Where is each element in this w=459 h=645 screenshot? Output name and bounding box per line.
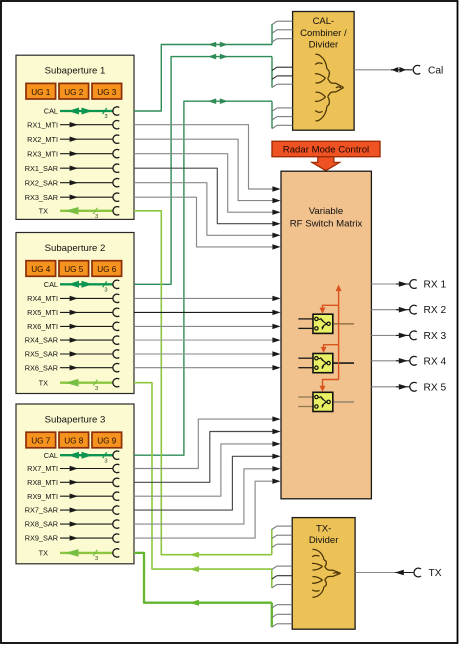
CAL-Combiner / Divider title <box>300 16 347 51</box>
svg-text:3: 3 <box>104 458 107 464</box>
svg-text:3: 3 <box>95 214 98 220</box>
switch cell S1 input stubs <box>298 319 313 329</box>
wire: subaperture1 RX2_MTI to matrix input <box>134 139 281 203</box>
unit group box UG9 <box>92 432 122 448</box>
svg-text:Variable: Variable <box>309 206 344 217</box>
svg-text:RX4_MTI: RX4_MTI <box>27 294 58 303</box>
switch cell S3 (SPDT switch) <box>313 392 333 411</box>
svg-text:RX3_MTI: RX3_MTI <box>27 149 58 158</box>
svg-text:RX6_SAR: RX6_SAR <box>25 363 58 372</box>
divider output stub group3-1 <box>272 605 292 608</box>
wire: subaperture3 RX9_MTI to matrix input <box>134 441 281 496</box>
svg-text:3: 3 <box>104 114 107 120</box>
svg-text:UG 7: UG 7 <box>31 437 51 446</box>
control arrow into switch matrix <box>312 157 340 171</box>
svg-text:RX2_SAR: RX2_SAR <box>25 178 58 187</box>
divider output stub group1-1 <box>272 526 292 529</box>
wire: subaperture1 RX1_MTI to matrix input <box>134 125 281 192</box>
unit group box UG4 <box>26 261 56 277</box>
TX port row of subaperture 3 (bus of 3) <box>39 549 120 563</box>
TX-Divider title <box>309 524 339 547</box>
switch cell S1 (SPDT switch) <box>313 314 333 333</box>
RX5_SAR port row of subaperture 2 <box>25 350 120 359</box>
svg-text:RX7_SAR: RX7_SAR <box>25 506 58 515</box>
switch cell S2 (SPDT switch) <box>313 354 333 373</box>
svg-text:Subaperture 1: Subaperture 1 <box>45 66 106 77</box>
RX3_MTI port row of subaperture 1 <box>27 149 119 158</box>
subaperture 1 box <box>16 55 134 219</box>
wire: subaperture3 RX7_MTI to matrix input <box>134 416 281 468</box>
switch cell S1 output stub <box>333 323 354 325</box>
svg-text:Divider: Divider <box>309 535 339 546</box>
divider output stub group2-1 <box>272 566 292 569</box>
RX 5 external port <box>371 382 446 393</box>
wire: subaperture3 RX8_SAR to matrix input <box>134 466 281 524</box>
wire: TX bus from divider to subaperture 1 <box>134 211 272 558</box>
control branch to switch S3 <box>320 380 339 392</box>
wire: subaperture1 RX3_MTI to matrix input <box>134 154 281 215</box>
combiner input stub group2-3 <box>272 84 293 87</box>
Variable RF Switch Matrix box <box>281 171 371 499</box>
RX1_SAR port row of subaperture 1 <box>25 164 120 173</box>
RX7_SAR port row of subaperture 3 <box>25 506 120 515</box>
svg-text:RX7_MTI: RX7_MTI <box>27 464 58 473</box>
Variable RF Switch Matrix title <box>290 206 363 230</box>
svg-text:RX8_SAR: RX8_SAR <box>25 520 58 529</box>
TX-Divider box <box>292 518 355 630</box>
RX4_SAR port row of subaperture 2 <box>25 336 120 345</box>
RX2_SAR port row of subaperture 1 <box>25 178 120 187</box>
svg-text:3: 3 <box>95 386 98 392</box>
svg-text:TX: TX <box>39 206 48 215</box>
wire: subaperture2 RX5_SAR to matrix input <box>134 351 281 356</box>
divider output stub group3-3 <box>272 624 292 627</box>
svg-text:Combiner /: Combiner / <box>300 28 347 39</box>
RX8_MTI port row of subaperture 3 <box>27 478 119 487</box>
svg-text:RX3_SAR: RX3_SAR <box>25 193 58 202</box>
divider output stub group1-3 <box>272 544 292 547</box>
svg-text:RF Switch Matrix: RF Switch Matrix <box>290 219 363 230</box>
RX 3 external port <box>371 331 446 342</box>
svg-text:UG 5: UG 5 <box>64 265 84 274</box>
svg-text:UG 9: UG 9 <box>97 437 117 446</box>
switch cell S2 output stub <box>333 362 354 364</box>
RX6_MTI port row of subaperture 2 <box>27 322 119 331</box>
CAL port row of subaperture 3 (bidirectional bus of 3) <box>44 451 120 465</box>
unit group box UG1 <box>26 83 56 99</box>
svg-text:RX9_MTI: RX9_MTI <box>27 492 58 501</box>
control line trunk (from Radar Mode Control) <box>336 285 342 380</box>
TX external port <box>355 568 442 579</box>
svg-text:RX5_MTI: RX5_MTI <box>27 308 58 317</box>
combiner input stub group3-3 <box>272 125 293 128</box>
svg-text:RX1_SAR: RX1_SAR <box>25 164 58 173</box>
subaperture 3 box <box>16 404 134 564</box>
svg-text:CAL: CAL <box>44 280 58 289</box>
CAL port row of subaperture 1 (bidirectional bus of 3) <box>44 107 120 121</box>
Cal external port <box>354 65 443 76</box>
unit group box UG3 <box>92 83 122 99</box>
RX 1 external port <box>371 280 446 291</box>
svg-text:3: 3 <box>95 556 98 562</box>
svg-text:RX4_SAR: RX4_SAR <box>25 336 58 345</box>
wire: subaperture1 RX1_SAR to matrix input <box>134 168 281 226</box>
divider output stub group3-2 <box>272 614 292 617</box>
switch cell S3 input stubs <box>298 397 313 407</box>
combiner input stub group1-1 <box>272 21 293 24</box>
svg-text:RX 1: RX 1 <box>424 280 447 291</box>
RX3_SAR port row of subaperture 1 <box>25 193 120 202</box>
svg-text:UG 3: UG 3 <box>97 88 117 97</box>
svg-text:3: 3 <box>104 288 107 294</box>
svg-text:RX9_SAR: RX9_SAR <box>25 534 58 543</box>
wire: subaperture1 RX3_SAR to matrix input <box>134 197 281 249</box>
RX 4 external port <box>371 356 446 367</box>
wire: subaperture3 RX7_SAR to matrix input <box>134 454 281 511</box>
combiner input stub group1-3 <box>272 39 293 42</box>
svg-text:UG 4: UG 4 <box>31 265 51 274</box>
RX6_SAR port row of subaperture 2 <box>25 363 120 372</box>
svg-text:TX: TX <box>39 378 48 387</box>
svg-text:CAL: CAL <box>44 107 58 116</box>
svg-text:RX 2: RX 2 <box>424 305 447 316</box>
control branch to switch S1 <box>320 305 339 313</box>
wire: subaperture 1 CAL bus to combiner <box>134 24 272 111</box>
svg-text:RX2_MTI: RX2_MTI <box>27 135 58 144</box>
switch cell S3 output stub <box>333 401 354 403</box>
divider output stub group1-2 <box>272 535 292 538</box>
divider output stub group2-3 <box>272 585 292 588</box>
RX2_MTI port row of subaperture 1 <box>27 135 119 144</box>
wire: subaperture2 RX6_SAR to matrix input <box>134 365 281 370</box>
RX4_MTI port row of subaperture 2 <box>27 294 119 303</box>
svg-text:UG 6: UG 6 <box>97 265 117 274</box>
RX5_MTI port row of subaperture 2 <box>27 308 119 317</box>
svg-text:TX-: TX- <box>316 524 331 535</box>
RX1_MTI port row of subaperture 1 <box>27 120 119 129</box>
RX8_SAR port row of subaperture 3 <box>25 520 120 529</box>
RX9_MTI port row of subaperture 3 <box>27 492 119 501</box>
wire: subaperture2 RX4_SAR to matrix input <box>134 337 281 342</box>
svg-text:Divider: Divider <box>309 40 339 51</box>
svg-text:Subaperture 3: Subaperture 3 <box>45 415 106 426</box>
TX port row of subaperture 1 (bus of 3) <box>39 206 120 220</box>
unit group box UG2 <box>59 83 89 99</box>
combiner input stub group3-1 <box>272 108 293 111</box>
svg-text:RX 3: RX 3 <box>424 331 447 342</box>
wire: subaperture2 RX4_MTI to matrix input <box>134 296 281 301</box>
svg-text:RX 5: RX 5 <box>424 382 447 393</box>
wire: subaperture2 RX5_MTI to matrix input <box>134 310 281 315</box>
svg-text:CAL-: CAL- <box>313 16 335 27</box>
svg-text:RX8_MTI: RX8_MTI <box>27 478 58 487</box>
wire: subaperture3 RX9_SAR to matrix input <box>134 479 281 539</box>
subaperture 2 box <box>16 233 134 394</box>
combiner tree symbol <box>315 54 344 121</box>
svg-text:TX: TX <box>429 568 442 579</box>
Radar Mode Control box <box>272 141 380 156</box>
combiner input stub group2-2 <box>272 76 293 79</box>
unit group box UG5 <box>59 261 89 277</box>
svg-text:RX6_MTI: RX6_MTI <box>27 322 58 331</box>
combiner input stub group3-2 <box>272 117 293 120</box>
unit group box UG7 <box>26 432 56 448</box>
svg-text:CAL: CAL <box>44 451 58 460</box>
control branch to switch S2 <box>321 345 339 353</box>
svg-text:UG 1: UG 1 <box>31 88 51 97</box>
unit group box UG8 <box>59 432 89 448</box>
CAL-Combiner / Divider box <box>293 12 355 131</box>
unit group box UG6 <box>92 261 122 277</box>
wire: subaperture 3 CAL bus to combiner <box>134 98 272 455</box>
wire: TX bus from divider to subaperture 2 <box>134 383 272 588</box>
divider output stub group2-2 <box>272 576 292 579</box>
RX7_MTI port row of subaperture 3 <box>27 464 119 473</box>
wire: subaperture1 RX2_SAR to matrix input <box>134 183 281 238</box>
svg-text:RX1_MTI: RX1_MTI <box>27 120 58 129</box>
wire: subaperture 2 CAL bus to combiner <box>134 54 272 284</box>
svg-text:RX5_SAR: RX5_SAR <box>25 350 58 359</box>
CAL port row of subaperture 2 (bidirectional bus of 3) <box>44 280 120 294</box>
combiner input stub group2-1 <box>272 67 293 70</box>
wire: TX bus from divider to subaperture 3 <box>134 553 272 627</box>
svg-text:UG 8: UG 8 <box>64 437 84 446</box>
svg-text:UG 2: UG 2 <box>64 88 84 97</box>
svg-text:Subaperture 2: Subaperture 2 <box>45 243 106 254</box>
svg-text:TX: TX <box>39 549 48 558</box>
svg-text:Radar Mode Control: Radar Mode Control <box>283 145 369 156</box>
svg-text:Cal: Cal <box>428 65 443 76</box>
wire: subaperture3 RX8_MTI to matrix input <box>134 429 281 483</box>
RX 2 external port <box>371 305 446 316</box>
switch cell S2 input stubs <box>298 358 313 368</box>
svg-text:RX 4: RX 4 <box>424 356 447 367</box>
combiner input stub group1-2 <box>272 30 293 33</box>
wire: subaperture2 RX6_MTI to matrix input <box>134 324 281 329</box>
TX port row of subaperture 2 (bus of 3) <box>39 378 120 392</box>
RX9_SAR port row of subaperture 3 <box>25 534 120 543</box>
divider tree symbol <box>312 549 341 597</box>
